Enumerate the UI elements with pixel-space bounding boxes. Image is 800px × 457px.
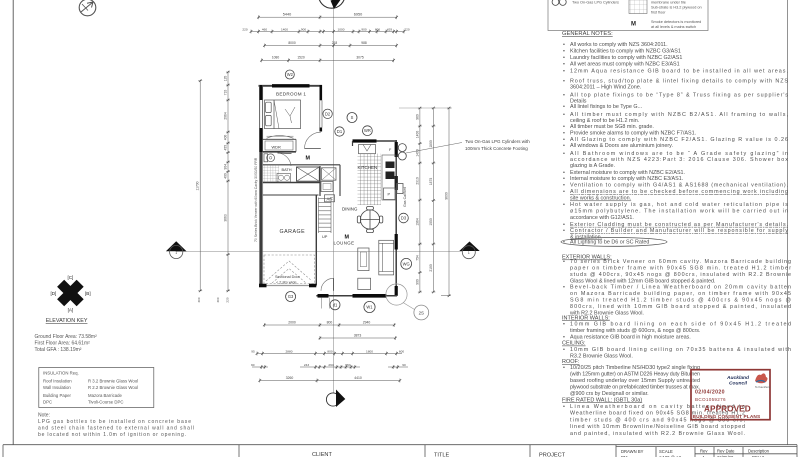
- svg-text:11700: 11700: [196, 181, 200, 190]
- title block bottom bar: [3, 445, 797, 457]
- sectional door dashed zone: [264, 255, 315, 284]
- top dimension row 2: [251, 31, 404, 33]
- bottom dimension row B: [320, 337, 396, 339]
- wall: left outer (brick veneer): [260, 85, 263, 287]
- svg-text:First Floor Area: 64.61m²: First Floor Area: 64.61m²: [35, 341, 91, 347]
- hot water cupboard AF: [325, 195, 335, 202]
- cylinder note leader: [406, 143, 462, 154]
- top dimension row 1: [259, 16, 397, 18]
- auckland council logo mark: [755, 373, 768, 383]
- svg-text:Gas Califont: Gas Califont: [403, 187, 407, 207]
- svg-text:•: •: [563, 183, 565, 189]
- svg-text:•: •: [563, 124, 565, 130]
- svg-text:800crs, lined with 10mm GIB bo: 800crs, lined with 10mm GIB board stoppe…: [570, 304, 791, 310]
- window / door tag circles: [285, 70, 411, 313]
- svg-text:900: 900: [361, 27, 366, 31]
- svg-text:3604:2011 – High Wind Zone.: 3604:2011 – High Wind Zone.: [570, 85, 641, 91]
- svg-text:754: 754: [415, 255, 419, 261]
- svg-text:10mm GIB board lining ceiling: 10mm GIB board lining ceiling on 70x35 b…: [570, 347, 791, 353]
- council approval stamp: [691, 370, 771, 420]
- right dimension line 3: [448, 108, 450, 296]
- svg-text:•: •: [563, 143, 565, 149]
- svg-text:•: •: [563, 334, 565, 340]
- svg-text:Sectional Door: Sectional Door: [275, 275, 301, 279]
- svg-text:1080: 1080: [272, 56, 280, 60]
- svg-text:3873: 3873: [354, 333, 362, 337]
- svg-text:lined with 10mm Brownline/Nois: lined with 10mm Brownline/Noiseline GIB …: [570, 424, 745, 430]
- svg-text:•: •: [563, 48, 565, 54]
- sofa: [379, 240, 394, 275]
- svg-text:ceiling & roof to be H1.2 min.: ceiling & roof to be H1.2 min.: [570, 118, 639, 124]
- svg-text:and steel chain fastened to ex: and steel chain fastened to external wal…: [38, 426, 194, 432]
- left dimension line inner: [227, 72, 229, 291]
- svg-text:Roof Insulation: Roof Insulation: [43, 379, 72, 384]
- svg-text:553: 553: [345, 363, 350, 367]
- svg-text:D3: D3: [401, 216, 407, 221]
- sheet right border line: [787, 0, 789, 445]
- insulation requirement table: [39, 368, 154, 408]
- svg-text:All Bathroom windows are to be: All Bathroom windows are to be “ A Grade…: [570, 151, 788, 157]
- svg-text:BUILDING CONSENT PLANS: BUILDING CONSENT PLANS: [693, 414, 761, 420]
- svg-text:All works to comply with NZS 3: All works to comply with NZS 3604:2011.: [570, 42, 668, 48]
- svg-text:1490: 1490: [415, 149, 419, 157]
- svg-text:All dimensions are to be check: All dimensions are to be checked before …: [570, 189, 788, 195]
- svg-text:ELEVATION KEY: ELEVATION KEY: [46, 318, 88, 324]
- floor area notes: [35, 334, 98, 353]
- svg-text:460: 460: [262, 27, 267, 31]
- svg-text:Description: Description: [748, 448, 770, 453]
- svg-text:3260: 3260: [286, 376, 294, 380]
- svg-text:UP: UP: [322, 234, 328, 239]
- side table: [358, 278, 371, 289]
- window W2 band top wall: [272, 84, 310, 87]
- svg-text:1400: 1400: [415, 131, 419, 139]
- svg-text:BEDROOM 1: BEDROOM 1: [276, 92, 306, 97]
- kitchen bench right: [382, 155, 396, 200]
- svg-text:•: •: [563, 365, 565, 371]
- right dimension line 1: [419, 108, 421, 292]
- svg-text:•: •: [563, 42, 565, 48]
- garage walls: [263, 194, 319, 196]
- callout 2S: [414, 305, 429, 320]
- coffee table: [358, 248, 369, 271]
- svg-text:•: •: [563, 189, 565, 195]
- svg-text:1050: 1050: [429, 218, 433, 226]
- svg-text:960: 960: [415, 114, 419, 120]
- svg-text:95: 95: [251, 349, 255, 353]
- left wall black jambs + bedroom window: [260, 85, 263, 100]
- svg-text:600: 600: [399, 349, 404, 353]
- corner detail circle: [386, 284, 407, 305]
- svg-text:2064: 2064: [224, 112, 228, 120]
- svg-text:800: 800: [327, 320, 333, 324]
- svg-text:Exterior Cladding must be cons: Exterior Cladding must be constructed as…: [570, 222, 788, 228]
- kitchen tile floor strip: [358, 154, 382, 206]
- svg-text:on Mazora Barricade building p: on Mazora Barricade building paper, on t…: [570, 291, 791, 297]
- svg-text:400: 400: [224, 173, 228, 179]
- svg-text:•: •: [563, 137, 565, 143]
- svg-text:Auckland: Auckland: [726, 375, 750, 381]
- svg-text:ø15mm polybutylene. The instal: ø15mm polybutylene. The installation wor…: [570, 208, 788, 214]
- svg-text:DINING: DINING: [342, 207, 358, 212]
- svg-text:Internal moisture to comply wi: Internal moisture to comply with NZBC E3…: [570, 176, 683, 182]
- svg-text:All top plate fixings to be “T: All top plate fixings to be “Type 8” & T…: [570, 93, 788, 99]
- shower box: [297, 167, 320, 181]
- svg-text:2S: 2S: [419, 310, 424, 315]
- svg-text:8000: 8000: [288, 41, 296, 45]
- svg-text:based roofing underlay over 15: based roofing underlay over 15mm Supply …: [570, 378, 700, 384]
- svg-text:4410: 4410: [354, 376, 362, 380]
- svg-text:glazing is A Grade.: glazing is A Grade.: [570, 163, 615, 169]
- svg-text:90: 90: [251, 363, 255, 367]
- svg-text:10mm GIB board lining on each: 10mm GIB board lining on each side of 90…: [570, 322, 791, 328]
- svg-text:< 2.8m wide: < 2.8m wide: [276, 281, 297, 285]
- svg-text:•: •: [563, 68, 565, 74]
- svg-text:•: •: [563, 104, 565, 110]
- svg-text:2000: 2000: [288, 320, 296, 324]
- svg-text:243: 243: [304, 363, 309, 367]
- svg-text:M: M: [631, 22, 636, 28]
- elevation key star: [50, 275, 90, 313]
- svg-text:R3.2 Brownie Glass Wool.: R3.2 Brownie Glass Wool.: [570, 353, 633, 359]
- svg-text:900: 900: [415, 279, 419, 285]
- svg-text:Contractor / Builder and Manuf: Contractor / Builder and Manufacturer wi…: [570, 228, 788, 234]
- svg-text:All windows & Doors are alumin: All windows & Doors are aluminium joiner…: [570, 143, 673, 149]
- svg-text:S: S: [351, 115, 354, 120]
- svg-text:Glass Wool & lined with 12mm G: Glass Wool & lined with 12mm GIB board s…: [570, 278, 716, 284]
- svg-text:Rev: Rev: [700, 448, 708, 453]
- wall: bath bottom: [263, 182, 320, 184]
- svg-text:1875: 1875: [429, 178, 433, 186]
- legend tile swatch: [629, 0, 647, 14]
- LPG gas note: [38, 413, 194, 439]
- svg-text:BCO1059276: BCO1059276: [695, 397, 726, 402]
- svg-text:be located not within 1.0m of: be located not within 1.0m of ignition o…: [38, 432, 186, 438]
- svg-text:10/20/25 pitch Timberline NS/H: 10/20/25 pitch Timberline NS/HD30 type2 …: [570, 365, 700, 371]
- svg-text:120: 120: [224, 76, 228, 82]
- svg-text:294: 294: [328, 363, 333, 367]
- oval around lighting note: [561, 238, 667, 247]
- svg-text:90: 90: [402, 363, 406, 367]
- svg-text:(with 125mm gutter) on ASTM D2: (with 125mm gutter) on ASTM D226 Heavy d…: [570, 372, 700, 378]
- svg-text:12mm Aqua resistance GIB board: 12mm Aqua resistance GIB board to be ins…: [570, 68, 788, 74]
- washer box: [322, 168, 337, 180]
- kitchen top wall: [353, 139, 377, 142]
- svg-text:988: 988: [361, 41, 367, 45]
- svg-text:400: 400: [197, 297, 201, 302]
- svg-text:FIRE RATED WALL: (GBTL 30a): FIRE RATED WALL: (GBTL 30a): [562, 397, 642, 403]
- svg-text:Building Paper: Building Paper: [43, 393, 72, 398]
- bottom dimension row D: [252, 366, 268, 368]
- lounge bottom wall: [316, 295, 397, 297]
- vertical section line: [333, 6, 335, 393]
- svg-text:site works & construction.: site works & construction.: [570, 196, 631, 202]
- svg-text:•: •: [563, 347, 565, 353]
- svg-text:3075: 3075: [356, 56, 364, 60]
- svg-text:External moisture to comply wi: External moisture to comply with NZBC E2…: [570, 170, 685, 176]
- elevation marker left: [166, 241, 187, 251]
- svg-text:CLIENT: CLIENT: [312, 452, 332, 457]
- svg-text:GARAGE: GARAGE: [280, 229, 306, 235]
- section marker bottom: [326, 393, 339, 406]
- svg-text:•: •: [563, 93, 565, 99]
- dining table: [357, 207, 383, 233]
- svg-text:studs @ 400crs, 90x45 nogs @ 8: studs @ 400crs, 90x45 nogs @ 800crs, ins…: [570, 272, 791, 278]
- fridge / bench top: [359, 145, 376, 154]
- svg-text:@900 crs by Designall or simil: @900 crs by Designall or similar.: [570, 391, 649, 397]
- svg-text:904: 904: [224, 164, 228, 170]
- svg-text:ROOF:: ROOF:: [562, 359, 580, 365]
- wall: bedroom top: [259, 85, 323, 87]
- svg-text:•: •: [563, 202, 565, 208]
- wall: bedroom right: [319, 85, 322, 100]
- svg-text:2190: 2190: [429, 264, 433, 272]
- svg-text:02/04/2020: 02/04/2020: [695, 390, 725, 396]
- staircase: [319, 198, 332, 234]
- svg-text:Wall Insulation: Wall Insulation: [43, 385, 71, 390]
- svg-text:BATH: BATH: [282, 167, 292, 172]
- svg-text:All timber must be SG8 min. gr: All timber must be SG8 min. grade.: [570, 124, 654, 130]
- svg-text:WG: WG: [403, 261, 410, 266]
- svg-text:plywood substrate on prefabric: plywood substrate on prefabricated timbe…: [570, 385, 700, 391]
- sheet left border line: [12, 0, 14, 445]
- svg-text:INSULATION Req.: INSULATION Req.: [43, 371, 79, 376]
- svg-text:400: 400: [216, 297, 220, 302]
- svg-text:•: •: [563, 176, 565, 182]
- svg-text:6950: 6950: [354, 13, 362, 17]
- svg-text:70 Series Brick Veneer with 60: 70 Series Brick Veneer with 60mm Cavity …: [254, 157, 258, 242]
- wardrobe WDR: [265, 141, 293, 150]
- bottom dimension row A: [264, 324, 394, 326]
- svg-text:•: •: [563, 259, 565, 265]
- bath tile floor: [263, 165, 279, 183]
- svg-text:2940: 2940: [363, 320, 371, 324]
- bottom dimension row E: [260, 380, 400, 382]
- svg-text:DPC: DPC: [43, 400, 52, 405]
- svg-text:•: •: [563, 228, 565, 234]
- top dimension row 4: [262, 59, 394, 61]
- bed: [265, 100, 301, 129]
- svg-text:800: 800: [327, 349, 332, 353]
- svg-text:2880: 2880: [286, 349, 293, 353]
- svg-text:Ventilation to comply with G4/: Ventilation to comply with G4/AS1 & AS16…: [570, 183, 788, 189]
- svg-text:d1: d1: [333, 302, 338, 307]
- svg-text:D2: D2: [325, 111, 331, 116]
- door D2 leaf and swing: [305, 148, 321, 150]
- svg-text:1964: 1964: [415, 218, 419, 226]
- svg-text:•: •: [563, 222, 565, 228]
- svg-text:[C]: [C]: [67, 275, 73, 280]
- elevation marker right: [459, 242, 479, 252]
- svg-text:GENERAL NOTES:: GENERAL NOTES:: [562, 31, 613, 37]
- svg-text:220: 220: [226, 297, 230, 302]
- svg-text:Council: Council: [729, 381, 748, 387]
- svg-text:Aqua resistance GIB board in h: Aqua resistance GIB board in high moistu…: [570, 334, 691, 340]
- svg-text:M: M: [306, 156, 311, 162]
- horizontal section line: [176, 251, 462, 253]
- section marker top: [319, 0, 345, 8]
- top dimension row 3: [265, 45, 397, 47]
- shelf above wdr: [267, 136, 294, 139]
- legend key box: [548, 0, 708, 31]
- svg-text:PROJECT: PROJECT: [539, 452, 566, 457]
- svg-text:1000: 1000: [338, 27, 345, 31]
- bottom dimension row C: [257, 353, 402, 355]
- right dimension line 2: [432, 108, 434, 292]
- svg-text:218: 218: [332, 41, 338, 45]
- svg-text:accordance with G12/AS1.: accordance with G12/AS1.: [570, 215, 634, 221]
- svg-text:WDR: WDR: [272, 145, 281, 150]
- svg-text:1: 1: [175, 251, 177, 255]
- svg-text:100mm Thick Concrete Footing: 100mm Thick Concrete Footing: [465, 146, 528, 151]
- svg-text:Roof truss, stud/top plate & l: Roof truss, stud/top plate & lintel fixi…: [570, 78, 788, 84]
- svg-text:•: •: [563, 62, 565, 68]
- svg-text:All Glazing to comply with NZB: All Glazing to comply with NZBC F2/AS1. …: [570, 137, 788, 143]
- svg-text:All lintel fixings to be Type: All lintel fixings to be Type G...: [570, 104, 642, 110]
- svg-text:at all levels & mains switch: at all levels & mains switch: [651, 25, 696, 29]
- svg-text:R 3.2 Brownie Glass Wool: R 3.2 Brownie Glass Wool: [88, 379, 138, 384]
- right outer wall: [395, 140, 397, 296]
- svg-text:Smoke detectors is monitored: Smoke detectors is monitored: [651, 20, 701, 24]
- svg-text:paper on timber frame with 90x: paper on timber frame with 90x45 SG8 min…: [570, 265, 791, 271]
- svg-text:5440: 5440: [283, 13, 291, 17]
- svg-text:•: •: [563, 322, 565, 328]
- svg-text:WR: WR: [364, 128, 371, 133]
- svg-text:Sub-strate is H3.2 plywood on: Sub-strate is H3.2 plywood on: [651, 6, 702, 10]
- svg-text:1400: 1400: [281, 27, 288, 31]
- svg-text:•: •: [563, 78, 565, 84]
- svg-text:900: 900: [301, 27, 306, 31]
- svg-text:Ground Floor Area: 73.58m²: Ground Floor Area: 73.58m²: [35, 334, 98, 340]
- svg-text:W1: W1: [366, 305, 373, 310]
- svg-text:455: 455: [224, 145, 228, 151]
- LPG cylinders: [398, 144, 406, 152]
- svg-text:1: 1: [468, 251, 470, 255]
- svg-text:CEILING:: CEILING:: [562, 341, 586, 347]
- left dimension line outer: [199, 81, 201, 291]
- gas califont unit: [397, 184, 403, 194]
- svg-text:Total GFA : 138.19m²: Total GFA : 138.19m²: [35, 347, 82, 353]
- svg-text:9600: 9600: [445, 192, 449, 200]
- svg-text:Tivoli-Course DPC: Tivoli-Course DPC: [88, 400, 123, 405]
- svg-text:400: 400: [224, 135, 228, 141]
- svg-text:710: 710: [224, 90, 228, 96]
- svg-text:•: •: [563, 285, 565, 291]
- svg-text:first floor: first floor: [651, 11, 666, 15]
- svg-text:Hot water supply is gas, hot a: Hot water supply is gas, hot and cold wa…: [570, 202, 788, 208]
- entry step lines: [321, 298, 323, 309]
- svg-text:timber framing with studs @ 60: timber framing with studs @ 600crs, & no…: [570, 328, 701, 334]
- svg-text:Provide smoke alarms to comply: Provide smoke alarms to comply with NZBC…: [570, 131, 696, 137]
- svg-text:429: 429: [387, 27, 392, 31]
- svg-text:•: •: [563, 151, 565, 157]
- svg-text:2310: 2310: [415, 177, 419, 185]
- svg-text:3663: 3663: [224, 214, 228, 222]
- svg-text:All Lighting to be D6 or SC Ra: All Lighting to be D6 or SC Rated: [570, 240, 649, 246]
- svg-text:LPG gas bottles to be installe: LPG gas bottles to be installed on concr…: [38, 419, 191, 425]
- legend LPG cylinders symbol: [552, 0, 559, 5]
- general notes bullet list: [563, 42, 789, 246]
- svg-text:•: •: [563, 131, 565, 137]
- north arrow compass: [79, 0, 96, 16]
- vanity: [277, 174, 291, 182]
- svg-text:220: 220: [242, 27, 247, 31]
- svg-text:Mazora Barricade: Mazora Barricade: [88, 393, 123, 398]
- svg-text:All wet areas must comply with: All wet areas must comply with NZBC E3/A…: [570, 62, 680, 68]
- svg-text:TITLE: TITLE: [434, 453, 449, 457]
- right top tails: [399, 107, 452, 109]
- svg-text:[B]: [B]: [85, 291, 91, 296]
- svg-text:•: •: [563, 170, 565, 176]
- svg-text:R 2.2 Brownie Glass Wool: R 2.2 Brownie Glass Wool: [88, 385, 138, 390]
- svg-text:D1: D1: [337, 129, 343, 134]
- svg-text:[D]: [D]: [50, 291, 56, 296]
- svg-text:•: •: [563, 55, 565, 61]
- svg-text:and painted, insulated with R2: and painted, insulated with R2.2 Brownie…: [570, 431, 745, 437]
- svg-text:APPROVED: APPROVED: [704, 405, 751, 414]
- svg-text:Two On-Gas LPG Cylinders with: Two On-Gas LPG Cylinders with: [465, 139, 530, 144]
- wall: bath top: [263, 164, 340, 166]
- svg-text:Te Kaunihera: Te Kaunihera: [755, 385, 771, 389]
- svg-text:SCALE: SCALE: [659, 449, 673, 454]
- svg-text:G3: G3: [288, 294, 294, 299]
- svg-text:•: •: [563, 404, 565, 410]
- svg-text:1800: 1800: [366, 349, 373, 353]
- svg-text:KITCHEN: KITCHEN: [358, 165, 378, 170]
- svg-text:1800: 1800: [429, 140, 433, 148]
- wall: bedroom bottom / wdr: [263, 138, 296, 140]
- svg-text:W2: W2: [287, 72, 294, 77]
- svg-text:accordance with NZS 4223:Part: accordance with NZS 4223:Part 3: 2016 Cl…: [570, 157, 788, 163]
- entry door swing: [321, 278, 334, 291]
- svg-text:membrane under tile: membrane under tile: [651, 1, 686, 5]
- svg-text:Note:: Note:: [38, 413, 50, 419]
- svg-text:INTERIOR WALLS:: INTERIOR WALLS:: [562, 315, 610, 321]
- svg-text:Two On-Gas LPG Cylinders: Two On-Gas LPG Cylinders: [572, 1, 619, 5]
- tub box: [321, 182, 333, 192]
- svg-text:220: 220: [404, 27, 409, 31]
- svg-text:LOUNGE: LOUNGE: [334, 240, 355, 245]
- svg-text:Kitchen facilities to comply w: Kitchen facilities to comply with NZBC G…: [570, 48, 681, 54]
- svg-text:Rev Date: Rev Date: [717, 448, 735, 453]
- toilet: [264, 154, 268, 162]
- garage bottom wall with sectional door opening: [259, 284, 267, 288]
- svg-text:DRAWN BY: DRAWN BY: [621, 449, 644, 454]
- svg-text:70 series Brick Veneer on 60mm: 70 series Brick Veneer on 60mm cavity. M…: [570, 259, 791, 265]
- svg-text:A/F: A/F: [327, 196, 334, 201]
- bath door swing: [278, 153, 292, 166]
- svg-text:1520: 1520: [297, 56, 305, 60]
- laundry walls: [319, 166, 321, 196]
- svg-text:806: 806: [375, 27, 380, 31]
- svg-text:[A]: [A]: [68, 308, 74, 313]
- svg-text:•: •: [563, 112, 565, 118]
- svg-text:Laundry facilities to comply w: Laundry facilities to comply with NZBC G…: [570, 55, 682, 61]
